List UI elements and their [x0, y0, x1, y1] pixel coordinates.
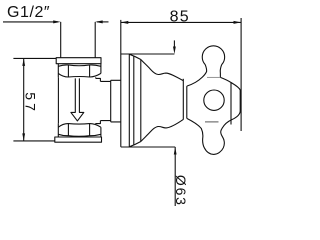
dimension 57 vertical line	[23, 58, 25, 140]
valve bottom flange	[55, 137, 102, 142]
handle hub right face chord line	[230, 83, 232, 125]
escutcheon dome back edge	[182, 79, 184, 120]
extension line right of 85 dimension (handle tip)	[240, 18, 242, 131]
outlet step from valve body to wall connector	[96, 78, 101, 123]
extension line top of 57 dimension	[13, 57, 56, 59]
handle right shoulder S-flare into hub face bump	[220, 77, 240, 90]
handle top collar line	[207, 76, 221, 78]
handle hub right face	[239, 90, 241, 111]
handle hub bottom edge line	[205, 121, 219, 123]
label G1/2" thread size text	[7, 4, 50, 21]
extension line right of G1/2 (pipe opening right edge)	[94, 22, 96, 58]
diameter 63 top tangent line	[121, 53, 175, 55]
extension line left of G1/2 (pipe opening left edge)	[60, 22, 62, 58]
svg-text:G1/2″: G1/2″	[7, 4, 50, 21]
handle top ball	[202, 46, 224, 65]
handle top-left neck flare	[187, 65, 207, 87]
valve bottom hex nut	[58, 123, 101, 137]
handle bottom arm outline with teardrop ball	[187, 111, 240, 154]
arrowhead left-pointing at right extension line of G1/2	[95, 20, 103, 23]
svg-text:Ø63: Ø63	[173, 175, 189, 206]
handle hub left face	[186, 86, 188, 118]
escutcheon bottom chamfer	[129, 142, 141, 147]
arrowhead right at left extension line of G1/2	[53, 20, 61, 23]
flow direction arrow inside valve body	[71, 78, 84, 121]
valve top hex nut	[58, 64, 101, 78]
wall connector box	[100, 80, 110, 122]
valve body mid section left edge	[57, 77, 59, 123]
stub above down arrow of diameter 63	[173, 40, 175, 47]
valve top flange	[56, 58, 101, 64]
escutcheon third ring	[140, 60, 142, 142]
arrowhead bottom of 57 dimension	[22, 133, 25, 141]
escutcheon top chamfer	[129, 54, 141, 59]
dimension 57 rotated text	[22, 92, 38, 114]
extension line left of 85 dimension (wall face, merges with escutcheon face)	[120, 20, 122, 147]
handle center index circle	[204, 90, 224, 110]
leader line for G1/2 dimension	[3, 21, 58, 23]
handle top neck right side	[220, 65, 221, 78]
diameter 63 rotated text	[173, 175, 189, 207]
arrow tail right side of G1/2 dimension	[97, 21, 109, 23]
svg-text:57: 57	[22, 92, 38, 114]
arrowhead right end of 85 dimension	[234, 21, 242, 24]
up arrowhead on bottom tangent of diameter 63	[174, 147, 177, 155]
vertical leader below diameter 63 arrow	[174, 147, 176, 206]
arrowhead top of 57 dimension	[22, 58, 25, 66]
escutcheon second ring	[133, 56, 135, 144]
connector nipple into wall	[111, 80, 121, 122]
escutcheon face plate rim ring	[128, 54, 130, 147]
down arrowhead on top tangent of diameter 63	[173, 47, 176, 55]
valve body mid section right edge stub	[95, 77, 97, 78]
extension line bottom of 57 dimension	[13, 140, 54, 142]
arrowhead left end of 85 dimension	[121, 21, 129, 24]
escutcheon dome top silhouette	[141, 60, 184, 81]
escutcheon dome bottom silhouette	[141, 119, 184, 141]
dimension 85 text	[170, 8, 190, 25]
diameter 63 bottom tangent line	[121, 146, 175, 148]
dimension line 85	[121, 21, 241, 23]
